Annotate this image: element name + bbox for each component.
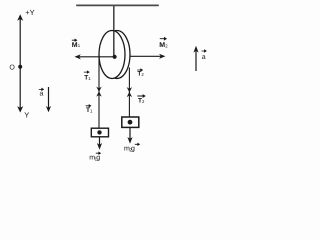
label m2g xyxy=(124,143,139,152)
Y axis line xyxy=(19,17,21,109)
rope 2 (right, continuous) xyxy=(128,68,130,118)
support rod xyxy=(113,6,115,57)
pulley disc (front ellipse) xyxy=(99,31,125,79)
label T1 upper xyxy=(84,71,91,81)
label a (left) xyxy=(39,88,44,97)
acceleration vector a (right, upward) xyxy=(193,46,198,71)
label +Y xyxy=(25,8,34,17)
tension T1 on mass arrowhead (up) xyxy=(96,91,101,96)
label T2 lower xyxy=(137,95,145,105)
rope 1 (left, continuous) xyxy=(98,55,100,128)
svg-text:a: a xyxy=(40,91,44,98)
label M1 xyxy=(72,39,81,49)
svg-text:g: g xyxy=(96,155,100,162)
tension T1 on pulley arrowhead (down) xyxy=(96,87,101,92)
label a (right) xyxy=(202,50,207,61)
mass m2 box xyxy=(122,117,139,127)
pulley rim (back ellipse) xyxy=(104,31,130,79)
acceleration vector a (left, downward) xyxy=(46,87,51,112)
svg-text:Y: Y xyxy=(24,110,29,119)
svg-text:+Y: +Y xyxy=(25,8,34,17)
mass m1 box xyxy=(91,128,108,137)
tension T2 on mass arrowhead (up) xyxy=(127,92,132,97)
svg-text:a: a xyxy=(202,54,206,61)
pulley axle dot xyxy=(113,55,117,59)
origin O dot xyxy=(18,65,22,69)
label M2 xyxy=(159,38,168,50)
label m1g xyxy=(89,152,100,161)
+Y arrowhead xyxy=(17,14,23,20)
ceiling xyxy=(76,4,159,6)
label T2 upper xyxy=(137,69,144,78)
weight vector m2g xyxy=(127,128,132,144)
vector M1 xyxy=(75,54,115,59)
label T1 lower xyxy=(86,105,93,114)
weight vector m1g xyxy=(97,137,102,150)
svg-text:O: O xyxy=(9,65,15,72)
mass m1 dot xyxy=(97,130,101,134)
label O xyxy=(9,65,15,72)
label Y xyxy=(24,110,29,119)
vector M2 xyxy=(130,54,166,59)
mass m2 dot xyxy=(128,120,133,125)
svg-text:g: g xyxy=(131,145,135,152)
-Y arrowhead xyxy=(17,106,23,113)
tension T2 on pulley arrowhead (down) xyxy=(127,87,132,92)
support rod inside pulley xyxy=(113,31,115,57)
